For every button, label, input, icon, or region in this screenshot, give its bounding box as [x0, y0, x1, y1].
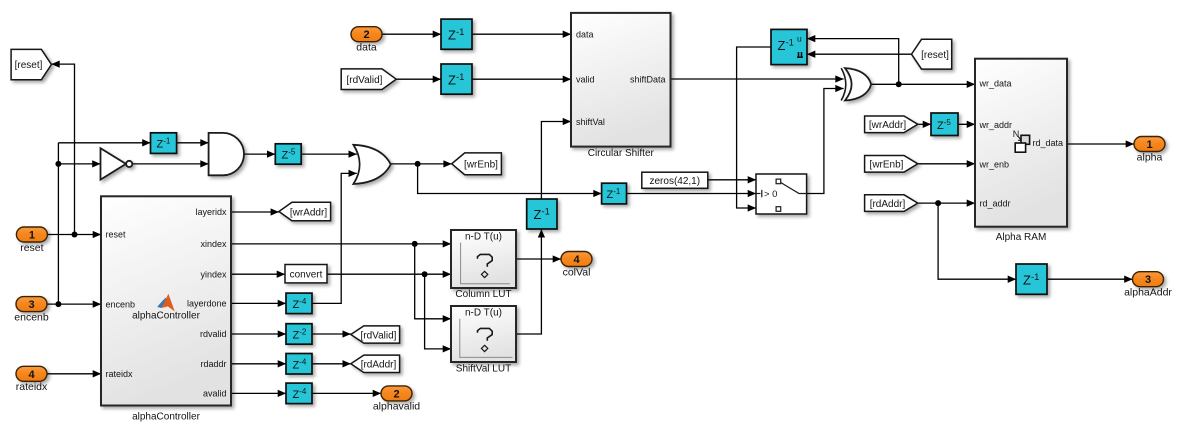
svg-text:encenb: encenb: [106, 299, 136, 309]
svg-text:rateidx: rateidx: [16, 381, 48, 393]
svg-text:xindex: xindex: [200, 239, 227, 249]
svg-text:yindex: yindex: [200, 269, 227, 279]
svg-text:rd_data: rd_data: [1033, 138, 1064, 148]
svg-text:[rdValid]: [rdValid]: [361, 330, 397, 341]
svg-text:colVal: colVal: [563, 266, 591, 278]
svg-text:1: 1: [1146, 139, 1152, 151]
svg-text:encenb: encenb: [14, 311, 49, 323]
svg-text:[rdAddr]: [rdAddr]: [870, 199, 906, 210]
svg-text:alphavalid: alphavalid: [373, 401, 420, 413]
svg-text:rd_addr: rd_addr: [980, 199, 1011, 209]
svg-text:> 0: > 0: [764, 189, 777, 200]
svg-text:N: N: [1013, 129, 1020, 139]
svg-text:layeridx: layeridx: [195, 207, 227, 217]
svg-text:zeros(42,1): zeros(42,1): [650, 176, 701, 187]
svg-text:n-D T(u): n-D T(u): [465, 232, 502, 243]
svg-text:4: 4: [28, 369, 35, 381]
svg-text:n-D T(u): n-D T(u): [465, 308, 502, 319]
svg-text:avalid: avalid: [203, 389, 227, 399]
svg-text:1: 1: [29, 230, 35, 242]
svg-text:wr_addr: wr_addr: [979, 120, 1013, 130]
svg-text:Circular Shifter: Circular Shifter: [588, 148, 655, 159]
svg-text:wr_enb: wr_enb: [979, 159, 1010, 169]
svg-text:layerdone: layerdone: [187, 299, 227, 309]
svg-text:2: 2: [393, 388, 399, 400]
svg-text:[rdAddr]: [rdAddr]: [361, 360, 397, 371]
svg-text:[reset]: [reset]: [15, 60, 43, 71]
svg-text:Column LUT: Column LUT: [455, 289, 511, 300]
svg-text:[wrAddr]: [wrAddr]: [290, 207, 327, 218]
svg-text:convert: convert: [290, 270, 323, 281]
svg-text:alpha: alpha: [1137, 151, 1163, 163]
svg-text:data: data: [356, 42, 377, 54]
svg-text:data: data: [576, 30, 594, 40]
svg-text:rdaddr: rdaddr: [200, 359, 226, 369]
svg-text:reset: reset: [20, 242, 43, 254]
svg-text:Alpha RAM: Alpha RAM: [996, 232, 1047, 243]
svg-text:[wrAddr]: [wrAddr]: [869, 120, 906, 131]
svg-text:shiftData: shiftData: [630, 75, 666, 85]
svg-text:3: 3: [28, 299, 34, 311]
svg-text:2: 2: [363, 29, 369, 41]
svg-text:[wrEnb]: [wrEnb]: [870, 160, 904, 171]
svg-text:reset: reset: [106, 230, 127, 240]
svg-text:shiftVal: shiftVal: [576, 117, 605, 127]
svg-text:ShiftVal LUT: ShiftVal LUT: [456, 364, 511, 375]
svg-text:4: 4: [573, 254, 580, 266]
svg-text:3: 3: [1145, 274, 1151, 286]
svg-text:valid: valid: [576, 75, 595, 85]
svg-text:alphaAddr: alphaAddr: [1124, 287, 1172, 299]
svg-text:[wrEnb]: [wrEnb]: [464, 160, 498, 171]
svg-text:alphaController: alphaController: [132, 311, 200, 322]
svg-text:alphaController: alphaController: [132, 412, 200, 423]
svg-text:[rdValid]: [rdValid]: [347, 75, 383, 86]
svg-text:wr_data: wr_data: [979, 79, 1012, 89]
svg-text:rdvalid: rdvalid: [200, 329, 227, 339]
svg-text:[reset]: [reset]: [921, 50, 949, 61]
svg-text:rateidx: rateidx: [106, 369, 134, 379]
svg-text:u: u: [797, 34, 802, 44]
